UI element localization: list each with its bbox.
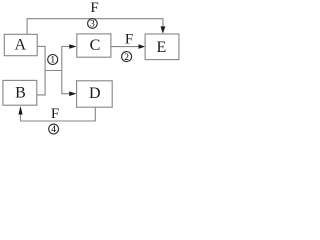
label circled 2	[122, 52, 132, 63]
svg-text:4: 4	[51, 125, 56, 135]
svg-text:3: 3	[90, 20, 95, 30]
box E	[145, 34, 179, 60]
svg-text:A: A	[15, 36, 27, 53]
label circled 3	[88, 19, 98, 30]
svg-text:B: B	[15, 85, 26, 102]
wire: A right to junction	[37, 46, 45, 70]
box D	[77, 81, 113, 107]
wire: from A top, up and right to above E (net F3)	[27, 19, 163, 35]
arrowhead into C left	[69, 44, 76, 49]
svg-text:F: F	[51, 106, 59, 122]
arrowhead down into E top	[161, 26, 166, 33]
svg-text:E: E	[157, 39, 167, 56]
box C	[77, 34, 111, 57]
svg-text:F: F	[125, 32, 133, 48]
wire: C right to E left (net F2)	[111, 46, 139, 48]
svg-text:2: 2	[124, 53, 129, 63]
arrowhead into D left	[69, 91, 76, 96]
label circled 1 (net A/B to C/D)	[48, 55, 58, 66]
arrowhead up into B bottom	[18, 106, 22, 115]
wire: junction rung	[45, 70, 62, 72]
wire: B right up to junction	[37, 71, 45, 95]
svg-text:C: C	[90, 37, 101, 54]
wire: junction up to C	[62, 47, 70, 71]
svg-text:F: F	[90, 0, 98, 16]
wire: D bottom down, left along bottom, up into B (net F4)	[21, 107, 96, 121]
svg-text:1: 1	[50, 56, 55, 66]
wire: junction down to D	[62, 71, 70, 94]
arrowhead into E left	[139, 44, 146, 49]
box A	[4, 34, 37, 55]
label circled 4	[49, 124, 59, 135]
svg-text:D: D	[89, 85, 101, 102]
box B	[3, 80, 37, 105]
